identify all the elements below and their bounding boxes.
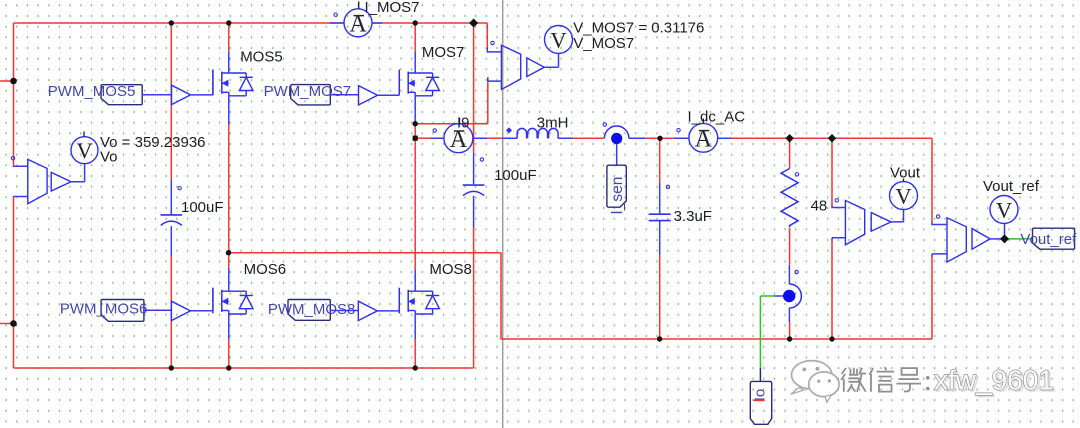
wire I_MOS7 leads (blue) xyxy=(330,22,382,24)
wire ISEN2 dot lead (blue) xyxy=(774,295,783,297)
svg-text:Vo: Vo xyxy=(100,149,118,166)
node C2 top (diamond) xyxy=(469,18,478,27)
transistor MOS8 xyxy=(398,288,400,314)
wire I9 leads (blue) xyxy=(431,137,488,139)
wire MOS5 source to MOS6 drain xyxy=(228,124,230,253)
wire V_MOS7 minus stub xyxy=(488,77,502,81)
label I9 tie xyxy=(459,118,461,124)
voltage sensor Vout_ref marker xyxy=(936,215,939,218)
wire Vo plus stub xyxy=(14,165,28,168)
svg-text:100uF: 100uF xyxy=(494,167,537,184)
svg-text:xfw_9601: xfw_9601 xyxy=(934,365,1054,396)
node MOS7 source xyxy=(413,121,418,126)
wire cap C1 top lead (red) xyxy=(170,23,172,180)
wire external stub top-left xyxy=(0,80,14,82)
wire cap C1 bottom lead (red) xyxy=(170,256,172,368)
tag Io red mark xyxy=(754,400,765,402)
svg-text:Io: Io xyxy=(752,389,769,402)
wire sensor to I_dc_AC xyxy=(646,137,689,139)
wire driver to MOS7 gate xyxy=(378,94,400,96)
wire PWM_MOS6 to driver xyxy=(144,309,172,311)
wire left phase node horizontal xyxy=(229,252,502,254)
ammeter I_dc_AC polarity marker xyxy=(677,129,680,132)
svg-text:V: V xyxy=(996,197,1012,222)
page boundary line xyxy=(502,0,504,428)
wire bottom DC- bus xyxy=(14,367,474,369)
svg-text:V_MOS7 = 0.31176: V_MOS7 = 0.31176 xyxy=(573,19,704,36)
wire Vout plus stub xyxy=(832,205,845,208)
wire driver to MOS6 gate xyxy=(190,288,213,311)
wire MOS8 drain lead (blue) xyxy=(414,270,416,292)
op-amp buffer V_MOS7 xyxy=(527,58,545,77)
resistor R1 polarity marker xyxy=(795,173,798,176)
ammeter I_MOS7 xyxy=(344,9,372,37)
svg-text:3.3uF: 3.3uF xyxy=(674,208,712,225)
current sensor ISEN1 dot xyxy=(611,133,622,144)
current sensor ISEN2 leads (blue) xyxy=(788,265,790,322)
node left phase xyxy=(226,250,231,255)
wire I_dc_AC leads (blue) xyxy=(674,137,732,139)
wire R48 bottom lead xyxy=(789,228,791,265)
resistor R1 48 zigzag xyxy=(781,169,798,228)
voltage sensor Vo marker xyxy=(11,157,14,160)
tag PWM_MOS7 box xyxy=(291,85,331,105)
wire left phase node drop xyxy=(500,253,502,339)
svg-text:PWM_MOS8: PWM_MOS8 xyxy=(268,301,356,318)
wire MOS6 source to bus xyxy=(228,339,230,368)
capacitor C2 100uF plates xyxy=(463,184,485,186)
svg-text:I9: I9 xyxy=(457,115,470,132)
node MOS5 drain xyxy=(226,20,231,25)
label I_MOS7 tie xyxy=(358,1,360,8)
voltage sensor Vo xyxy=(28,159,47,203)
op-amp gate driver U6 xyxy=(171,301,190,320)
svg-text:MOS7: MOS7 xyxy=(422,44,465,61)
capacitor C3 polarity marker xyxy=(666,185,669,188)
node MOS8 source xyxy=(413,365,418,370)
svg-text:V_MOS7: V_MOS7 xyxy=(573,35,634,52)
wire Vout sense minus drop xyxy=(831,241,833,340)
node C3 top xyxy=(657,136,662,141)
op-amp gate driver U5 xyxy=(172,85,191,104)
wire phase to ammeter I9 xyxy=(415,137,430,139)
wire I9 to inductor xyxy=(487,137,502,139)
tag PWM_MOS5 box xyxy=(101,85,142,105)
wire cap C2 top lead (red) xyxy=(473,23,475,153)
wire V_MOS7 buffer to meter xyxy=(544,54,558,68)
transistor MOS6 xyxy=(212,288,214,314)
node Vout_ref out (diamond) xyxy=(1000,234,1009,243)
wire MOS5 source lead (blue) xyxy=(228,92,230,124)
wire R48 top lead xyxy=(789,138,791,168)
node MOS6 source xyxy=(226,365,231,370)
wire driver to MOS5 gate xyxy=(191,70,213,95)
wire rail end to V_MOS7 plus xyxy=(486,23,488,48)
wire Vout sense plus drop xyxy=(831,138,833,205)
node Vout tap top (diamond) xyxy=(828,134,836,142)
tag Io box xyxy=(750,381,771,424)
label Vout tie xyxy=(903,179,905,182)
wire MOS7 source to sense link xyxy=(415,123,488,125)
svg-text:48: 48 xyxy=(811,197,828,214)
wire Vo minus stub xyxy=(14,195,28,197)
wire load sensor to bus xyxy=(789,322,791,339)
svg-text:Vout_ref: Vout_ref xyxy=(1020,231,1077,248)
current sensor ISEN1 hop xyxy=(604,126,629,138)
wire I_dc_AC to load node xyxy=(732,137,932,139)
wire left rail upper segment xyxy=(13,23,15,166)
node C3 bottom xyxy=(657,336,662,341)
inductor L1 3mH loops xyxy=(517,128,558,138)
wire MOS5 drain lead (blue) xyxy=(228,52,230,73)
wire cap C2 bottom lead (red) xyxy=(473,227,475,368)
voltmeter Vout xyxy=(890,182,918,210)
wire inductor to sensor xyxy=(573,137,604,139)
wire Vo buffer to meter xyxy=(71,164,85,182)
node R48 bottom xyxy=(787,336,792,341)
wire C3 branch bottom (red) xyxy=(659,255,661,339)
node left rail bottom stub xyxy=(10,320,17,327)
capacitor C2 100uF leads (blue) xyxy=(473,153,475,227)
op-amp buffer Vout_ref xyxy=(972,229,990,250)
label I_dc_AC tie xyxy=(702,119,704,124)
wire MOS5 drain xyxy=(228,23,230,52)
svg-text:PWM_MOS7: PWM_MOS7 xyxy=(264,83,352,100)
op-amp gate driver U7 xyxy=(359,86,378,105)
svg-text:PWM_MOS5: PWM_MOS5 xyxy=(48,83,136,100)
wire driver to MOS8 gate xyxy=(377,310,399,312)
wire top DC+ rail xyxy=(14,22,488,24)
voltage sensor Vout marker xyxy=(835,199,838,202)
ammeter I_MOS7 polarity marker xyxy=(334,13,337,16)
node C1 top xyxy=(169,20,174,25)
ammeter I9 polarity marker xyxy=(433,129,436,132)
wire C3 branch top (red) xyxy=(659,138,661,183)
op-amp gate driver U8 xyxy=(358,301,377,320)
node left rail top stub xyxy=(10,78,17,85)
wire V_MOS7 minus drop xyxy=(487,77,489,124)
wire Vout buffer to meter xyxy=(891,210,904,222)
transistor MOS5 xyxy=(212,70,214,96)
wire MOS7 drain xyxy=(414,23,416,52)
wire right rail to Vout_ref plus xyxy=(931,138,933,221)
wire sensor1 left lead (blue) xyxy=(629,137,646,139)
svg-text:V: V xyxy=(895,183,911,208)
current sensor ISEN1 marker xyxy=(603,123,606,126)
voltmeter Vout_ref xyxy=(990,196,1018,224)
node MOS7 drain xyxy=(413,20,418,25)
wire ISEN2 to Io (green) xyxy=(760,296,774,368)
wire MOS6 drain lead (blue) xyxy=(228,268,230,291)
wire MOS8 source to bus xyxy=(414,339,416,368)
ammeter I_dc_AC xyxy=(689,123,718,152)
wire PWM_MOS8 to driver xyxy=(330,310,358,312)
wire Vout_ref minus to bus xyxy=(931,257,933,340)
svg-text:MOS5: MOS5 xyxy=(240,49,283,66)
voltage sensor V_MOS7 xyxy=(501,45,520,89)
wire MOS6 drain stub xyxy=(228,253,230,268)
svg-text:V: V xyxy=(76,138,92,163)
svg-text:PWM_MOS6: PWM_MOS6 xyxy=(60,300,148,317)
svg-text:I_sen: I_sen xyxy=(609,177,626,215)
node Vout tap bottom xyxy=(829,336,834,341)
ammeter I9 xyxy=(444,124,473,153)
transistor MOS7 xyxy=(398,70,400,96)
wire PWM_MOS5 to driver xyxy=(142,94,171,96)
wire external stub bottom-left xyxy=(0,323,14,325)
current sensor ISEN2 marker xyxy=(795,270,798,273)
tag PWM_MOS6 box xyxy=(101,300,144,322)
inductor L1 3mH leads (blue) xyxy=(502,137,573,139)
wire Vout_ref buffer to node xyxy=(990,238,1004,240)
svg-text:I_MOS7: I_MOS7 xyxy=(365,0,420,16)
label Vo tie xyxy=(83,132,85,137)
op-amp buffer Vo xyxy=(51,172,71,191)
svg-text:Vout: Vout xyxy=(890,165,921,182)
wire left rail lower segment xyxy=(13,196,15,368)
capacitor C1 100uF leads (blue) xyxy=(170,180,172,256)
wire MOS6 source lead (blue) xyxy=(228,311,230,340)
wire MOS7 drain lead (blue) xyxy=(414,52,416,73)
wire Vout_ref plus stub xyxy=(932,222,947,225)
wire output bottom rail xyxy=(501,338,932,340)
wire Io tag lead (navy) xyxy=(759,368,761,381)
svg-text:MOS6: MOS6 xyxy=(244,261,287,278)
capacitor C3 3.3uF leads (blue) xyxy=(659,183,661,255)
wire V_MOS7 plus stub xyxy=(487,48,501,52)
wire Vout_ref node to tag (green) xyxy=(1005,238,1033,240)
wire PWM_MOS7 to driver xyxy=(330,94,358,96)
wire Vout minus stub xyxy=(832,238,845,241)
wire MOS8 drain xyxy=(414,138,416,269)
svg-text:I_dc_AC: I_dc_AC xyxy=(688,108,746,125)
current sensor ISEN2 dot xyxy=(783,290,795,302)
voltmeter Vo xyxy=(71,137,98,164)
svg-text:Vout_ref: Vout_ref xyxy=(983,178,1040,195)
capacitor C2 polarity marker xyxy=(480,158,483,161)
tag I_sen box xyxy=(607,165,626,207)
svg-text:3mH: 3mH xyxy=(537,115,569,132)
watermark CJK text xyxy=(841,368,866,392)
node C1 bottom xyxy=(169,365,174,370)
capacitor C3 3.3uF plates xyxy=(649,214,671,220)
wire MOS7 source tap xyxy=(414,124,416,139)
svg-text:100uF: 100uF xyxy=(181,199,224,216)
wire ISEN1 to I_sen tag (blue) xyxy=(616,144,618,165)
node R48 top (diamond) xyxy=(785,134,793,142)
inductor L1 polarity marker xyxy=(506,127,512,133)
op-amp buffer Vout xyxy=(871,213,891,232)
svg-text:MOS8: MOS8 xyxy=(429,261,472,278)
current sensor ISEN2 hop xyxy=(789,284,801,308)
tag PWM_MOS8 box xyxy=(288,300,330,321)
svg-text:V: V xyxy=(550,27,566,52)
voltmeter V_MOS7 xyxy=(545,26,573,54)
wire Vout_ref meter drop xyxy=(1004,224,1006,239)
wire MOS8 source lead (blue) xyxy=(414,311,416,340)
wire MOS7 source lead (blue) xyxy=(414,92,416,123)
voltage sensor Vout_ref xyxy=(947,218,966,262)
voltage sensor Vout xyxy=(845,201,864,245)
voltage sensor V_MOS7 marker xyxy=(491,41,494,44)
tag Vout_ref box xyxy=(1033,228,1075,249)
capacitor C1 polarity marker xyxy=(178,187,181,190)
capacitor C1 100uF plates xyxy=(161,214,183,216)
node I9 tap (square) xyxy=(413,136,418,141)
wire Vout_ref minus stub xyxy=(932,254,947,257)
watermark wechat icon xyxy=(791,361,839,403)
